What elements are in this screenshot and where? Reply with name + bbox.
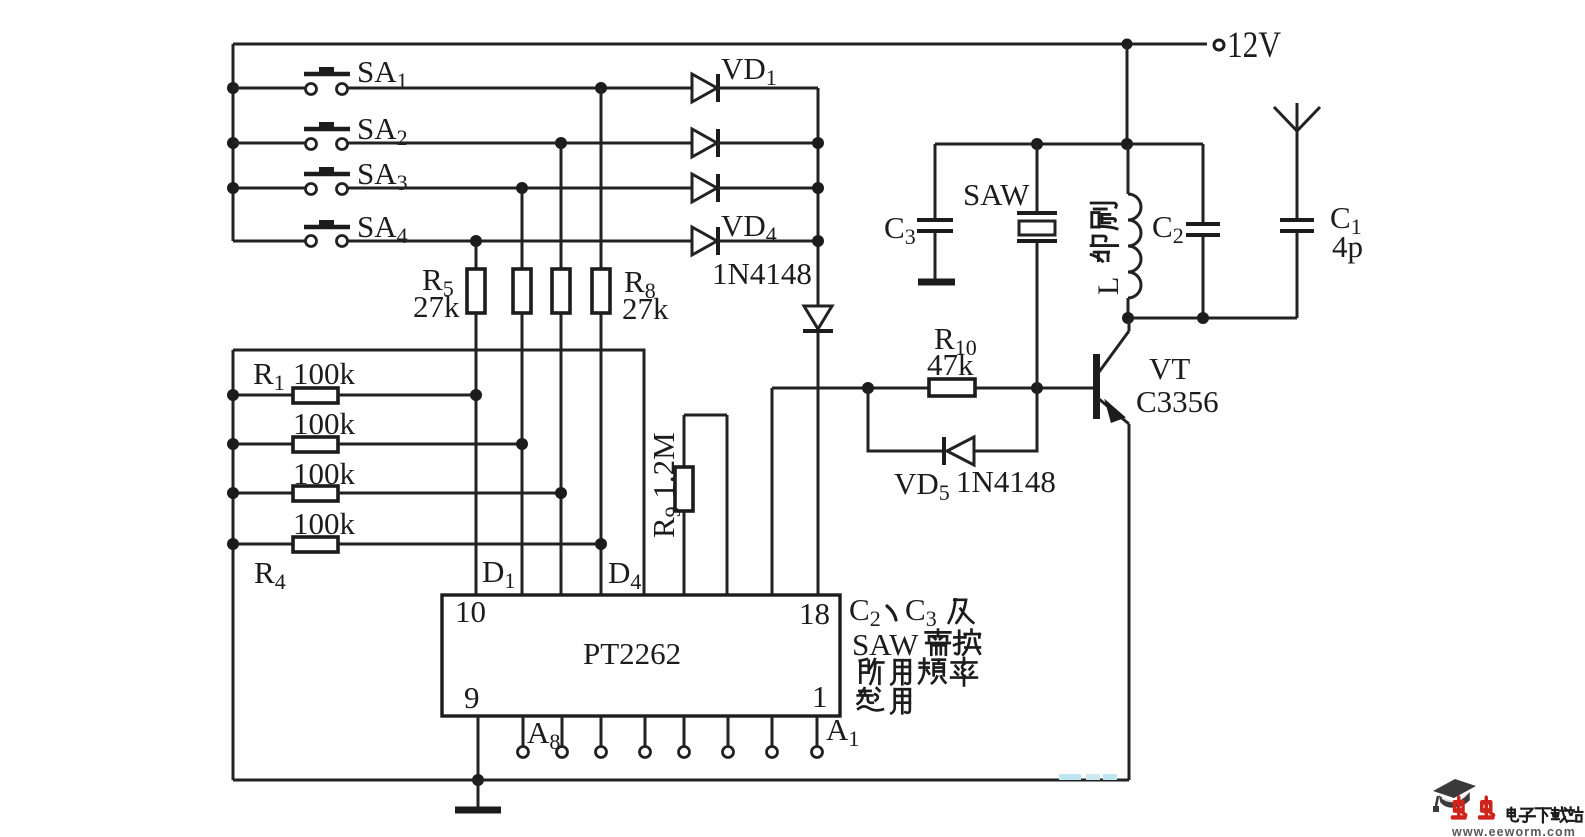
capacitor C2	[1152, 144, 1220, 318]
svg-text:A1: A1	[826, 712, 859, 751]
switch SA2	[233, 111, 408, 150]
node bus SA1	[227, 82, 239, 94]
pin A7 stub	[557, 716, 568, 758]
pin A8 stub	[518, 715, 561, 758]
watermark graduation cap	[1433, 779, 1476, 812]
transistor VT	[1093, 318, 1219, 780]
svg-text:D1: D1	[482, 554, 515, 593]
diode VD1	[692, 51, 777, 102]
inductor L printed	[1128, 144, 1141, 318]
wire SA3 row	[348, 187, 692, 190]
svg-text:1: 1	[812, 679, 828, 714]
ground	[455, 780, 501, 810]
resistor R10	[927, 321, 977, 396]
note line 1: C2, C3 and	[849, 592, 973, 631]
svg-text:27k: 27k	[622, 291, 669, 326]
wire R-block top	[233, 350, 644, 595]
svg-text:C3: C3	[905, 592, 937, 631]
wire SA2 row	[348, 142, 692, 145]
node tank bottom L	[1122, 312, 1134, 324]
svg-text:9: 9	[464, 680, 480, 715]
resistor R4	[227, 506, 607, 594]
node SA4 column R5	[470, 235, 482, 247]
watermark chongchong red	[1452, 798, 1494, 818]
label L yinshua rotated (printed inductor)	[1091, 203, 1117, 261]
svg-text:47k: 47k	[927, 347, 974, 382]
capacitor C3	[884, 144, 955, 282]
svg-text:VD1: VD1	[721, 51, 777, 90]
svg-text:SAW: SAW	[852, 627, 919, 662]
switch SA4	[233, 209, 408, 248]
resistor R7	[552, 143, 570, 313]
watermark site name	[1508, 807, 1583, 822]
pin A2 stub	[767, 716, 778, 758]
note line 2: SAW needs	[852, 627, 980, 662]
node base rail SAW	[1031, 382, 1043, 394]
node tank top SAW	[1031, 138, 1043, 150]
wire column D4	[600, 313, 603, 595]
svg-text:D4: D4	[608, 555, 641, 594]
wire top supply rail	[233, 43, 1207, 46]
node bus VD2	[812, 137, 824, 149]
wire left bus upper	[232, 44, 235, 241]
diode VD4	[692, 208, 812, 291]
pin A5 stub	[640, 716, 651, 758]
svg-text:1N4148: 1N4148	[956, 464, 1056, 499]
node SA2 column	[555, 137, 567, 149]
wire SA1 row	[348, 87, 692, 90]
switch SA3	[233, 156, 408, 195]
wire pin17 column	[771, 388, 774, 595]
wire pin9 to ground	[477, 716, 480, 780]
wire 12V drop to tank	[1126, 44, 1129, 144]
svg-text:PT2262: PT2262	[583, 636, 681, 671]
pin A3 stub	[723, 716, 734, 758]
svg-text:4p: 4p	[1332, 229, 1363, 264]
svg-text:C2: C2	[849, 592, 881, 631]
svg-text:C2: C2	[1152, 209, 1184, 248]
svg-text:C3: C3	[884, 210, 916, 249]
diode VD5	[868, 388, 1056, 505]
svg-text:R4: R4	[254, 555, 286, 594]
svg-text:VT: VT	[1149, 351, 1190, 386]
svg-text:R9 1.2M: R9 1.2M	[646, 432, 685, 538]
label D4	[608, 555, 641, 594]
label L printed rotated	[1092, 277, 1125, 295]
node bus SA2	[227, 137, 239, 149]
node tank bottom C2	[1197, 312, 1209, 324]
note line 4: select	[858, 688, 910, 713]
svg-text:12V: 12V	[1227, 25, 1281, 66]
pin A4 stub	[679, 716, 690, 758]
wire SA4 row	[348, 240, 692, 243]
wire VD2 to bus	[717, 142, 818, 145]
wire tank top rail	[935, 143, 1203, 146]
IC U1 PT2262	[442, 594, 840, 716]
wire VD1 to bus	[717, 87, 818, 90]
note line 3: per used frequency	[860, 658, 977, 685]
capacitor C1	[1280, 200, 1363, 318]
switch SA1	[233, 54, 408, 95]
svg-text:1N4148: 1N4148	[712, 256, 812, 291]
wire base rail	[772, 387, 1095, 390]
node base rail left	[862, 382, 874, 394]
wire bus to pin 18	[817, 331, 820, 595]
wire bottom rail	[233, 779, 1129, 782]
svg-text:VD5: VD5	[894, 466, 950, 505]
svg-text:100k: 100k	[293, 356, 356, 391]
wire column D1	[475, 313, 478, 595]
node bus SA3	[227, 182, 239, 194]
node top rail to L column	[1122, 39, 1133, 50]
svg-text:18: 18	[799, 596, 830, 631]
node SA1 column D4	[595, 82, 607, 94]
pin A6 stub	[596, 716, 607, 758]
svg-text:L: L	[1092, 277, 1125, 295]
resistor R8	[592, 88, 669, 326]
resistor R1	[227, 356, 482, 403]
resistor R2	[227, 406, 528, 452]
resistor R5	[413, 241, 485, 324]
diode VD2	[692, 129, 718, 157]
svg-text:www.eeworm.com: www.eeworm.com	[1451, 825, 1576, 837]
wire diode cathode bus	[817, 88, 820, 306]
pin A1 stub	[812, 712, 860, 758]
wire left bus lower	[232, 350, 235, 780]
resistor R9	[646, 415, 727, 595]
svg-text:A8: A8	[527, 715, 560, 754]
svg-text:100k: 100k	[293, 406, 356, 441]
node pin9 bottom rail	[472, 774, 484, 786]
svg-text:10: 10	[455, 594, 486, 629]
resistor R6	[513, 188, 531, 313]
12V terminal	[1214, 25, 1281, 66]
resistor R3	[227, 456, 567, 501]
svg-text:R1: R1	[253, 356, 285, 395]
diode VD3	[692, 174, 718, 202]
svg-text:27k: 27k	[413, 289, 460, 324]
resonator SAW	[963, 144, 1057, 388]
node tank top L	[1121, 138, 1133, 150]
wire column D2	[521, 313, 524, 595]
watermark url	[1451, 825, 1576, 837]
svg-text:C3356: C3356	[1136, 384, 1219, 419]
antenna	[1274, 103, 1320, 219]
node bus VD3	[812, 182, 824, 194]
node SA3 column	[516, 182, 528, 194]
wire VD4 to bus	[717, 240, 818, 243]
wire tank bottom rail	[1128, 317, 1297, 320]
wire VD3 to bus	[717, 187, 818, 190]
diode series to pin 18	[803, 306, 833, 331]
svg-text:100k: 100k	[293, 456, 356, 491]
label D1	[482, 554, 515, 593]
wire column D3	[560, 313, 563, 595]
svg-text:SAW: SAW	[963, 177, 1030, 212]
svg-text:100k: 100k	[293, 506, 356, 541]
node bus VD4	[812, 235, 824, 247]
cyan artifact dashes	[1059, 774, 1117, 780]
